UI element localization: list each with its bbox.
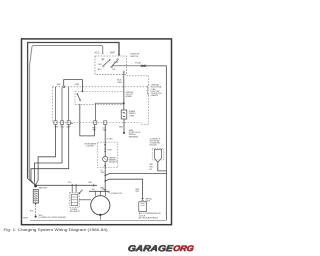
svg-text:LT GRN: LT GRN [107,139,114,141]
svg-text:BOARD: BOARD [126,95,133,98]
svg-text:CONNECTOR: CONNECTOR [111,193,123,195]
svg-text:GARAGE: GARAGE [127,243,174,253]
svg-text:ELECTRONIC: ELECTRONIC [150,140,161,142]
svg-text:MODULE): MODULE) [150,144,157,146]
svg-text:CLUTCH: CLUTCH [139,215,146,217]
svg-text:SWITCH: SWITCH [130,56,138,58]
svg-text:ACC: ACC [98,68,103,71]
svg-text:GRN: GRN [149,164,152,166]
svg-text:GRN: GRN [75,84,80,86]
svg-text:HARNESS): HARNESS) [129,135,139,138]
svg-text:BAT: BAT [111,52,116,55]
svg-text:(LOCATED LEFT FRONT FENDER): (LOCATED LEFT FRONT FENDER) [39,216,67,219]
svg-text:(IF EQUIPPED): (IF EQUIPPED) [139,218,159,220]
svg-text:BLK: BLK [149,169,152,171]
svg-text:BRN/: BRN/ [135,189,139,191]
svg-text:(LAMPS): (LAMPS) [151,94,159,97]
svg-text:GRN: GRN [117,82,122,84]
svg-text:ORG: ORG [172,244,195,253]
svg-text:Fig. 1: Charging System Wirin: Fig. 1: Charging System Wiring Diagram (… [4,228,108,232]
svg-text:CLUSTER: CLUSTER [86,146,95,148]
svg-text:FUSE: FUSE [135,63,141,65]
svg-text:CONN: CONN [129,115,135,117]
svg-text:BAT: BAT [89,181,92,184]
svg-text:BATTERY: BATTERY [39,186,48,189]
svg-text:RED: RED [119,127,124,129]
svg-text:FUSE: FUSE [107,150,111,152]
svg-text:ACC: ACC [95,52,100,55]
